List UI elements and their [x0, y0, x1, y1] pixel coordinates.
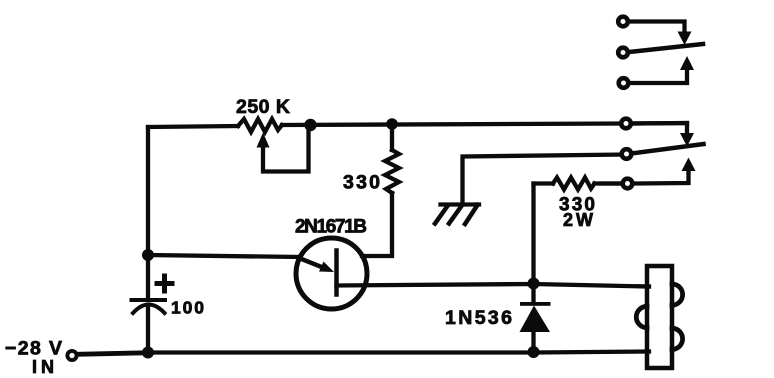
svg-text:2N1671B: 2N1671B [295, 217, 367, 238]
svg-text:IN: IN [32, 357, 54, 377]
svg-text:1N536: 1N536 [445, 307, 512, 329]
svg-text:330: 330 [343, 172, 380, 194]
svg-text:100: 100 [171, 298, 204, 318]
svg-text:2W: 2W [563, 210, 593, 230]
svg-text:250 K: 250 K [236, 96, 290, 118]
